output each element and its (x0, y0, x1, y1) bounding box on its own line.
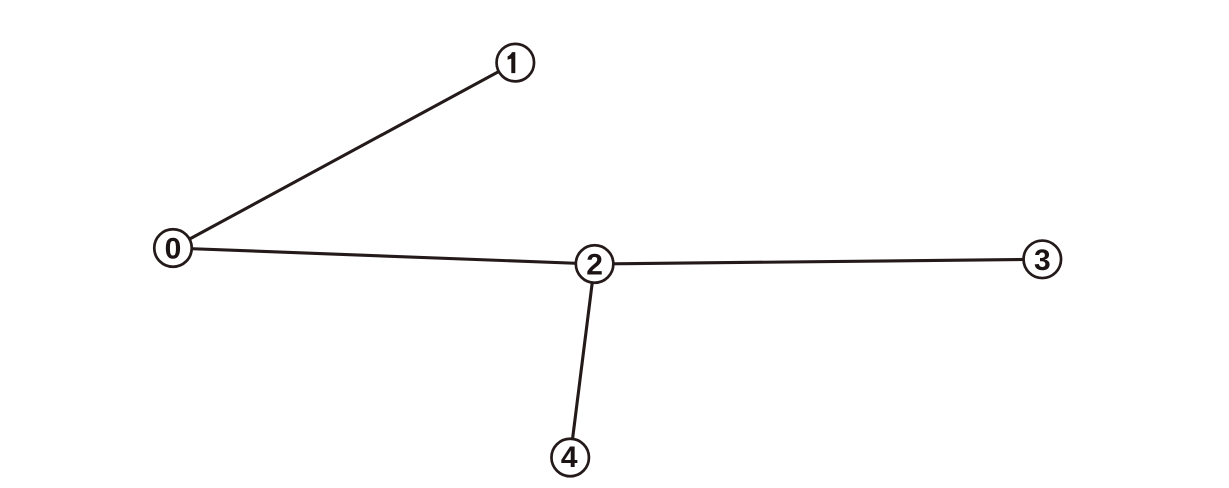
svg-text:3: 3 (1034, 244, 1051, 277)
svg-text:4: 4 (561, 441, 578, 474)
svg-text:2: 2 (586, 249, 603, 282)
svg-text:0: 0 (165, 233, 182, 266)
